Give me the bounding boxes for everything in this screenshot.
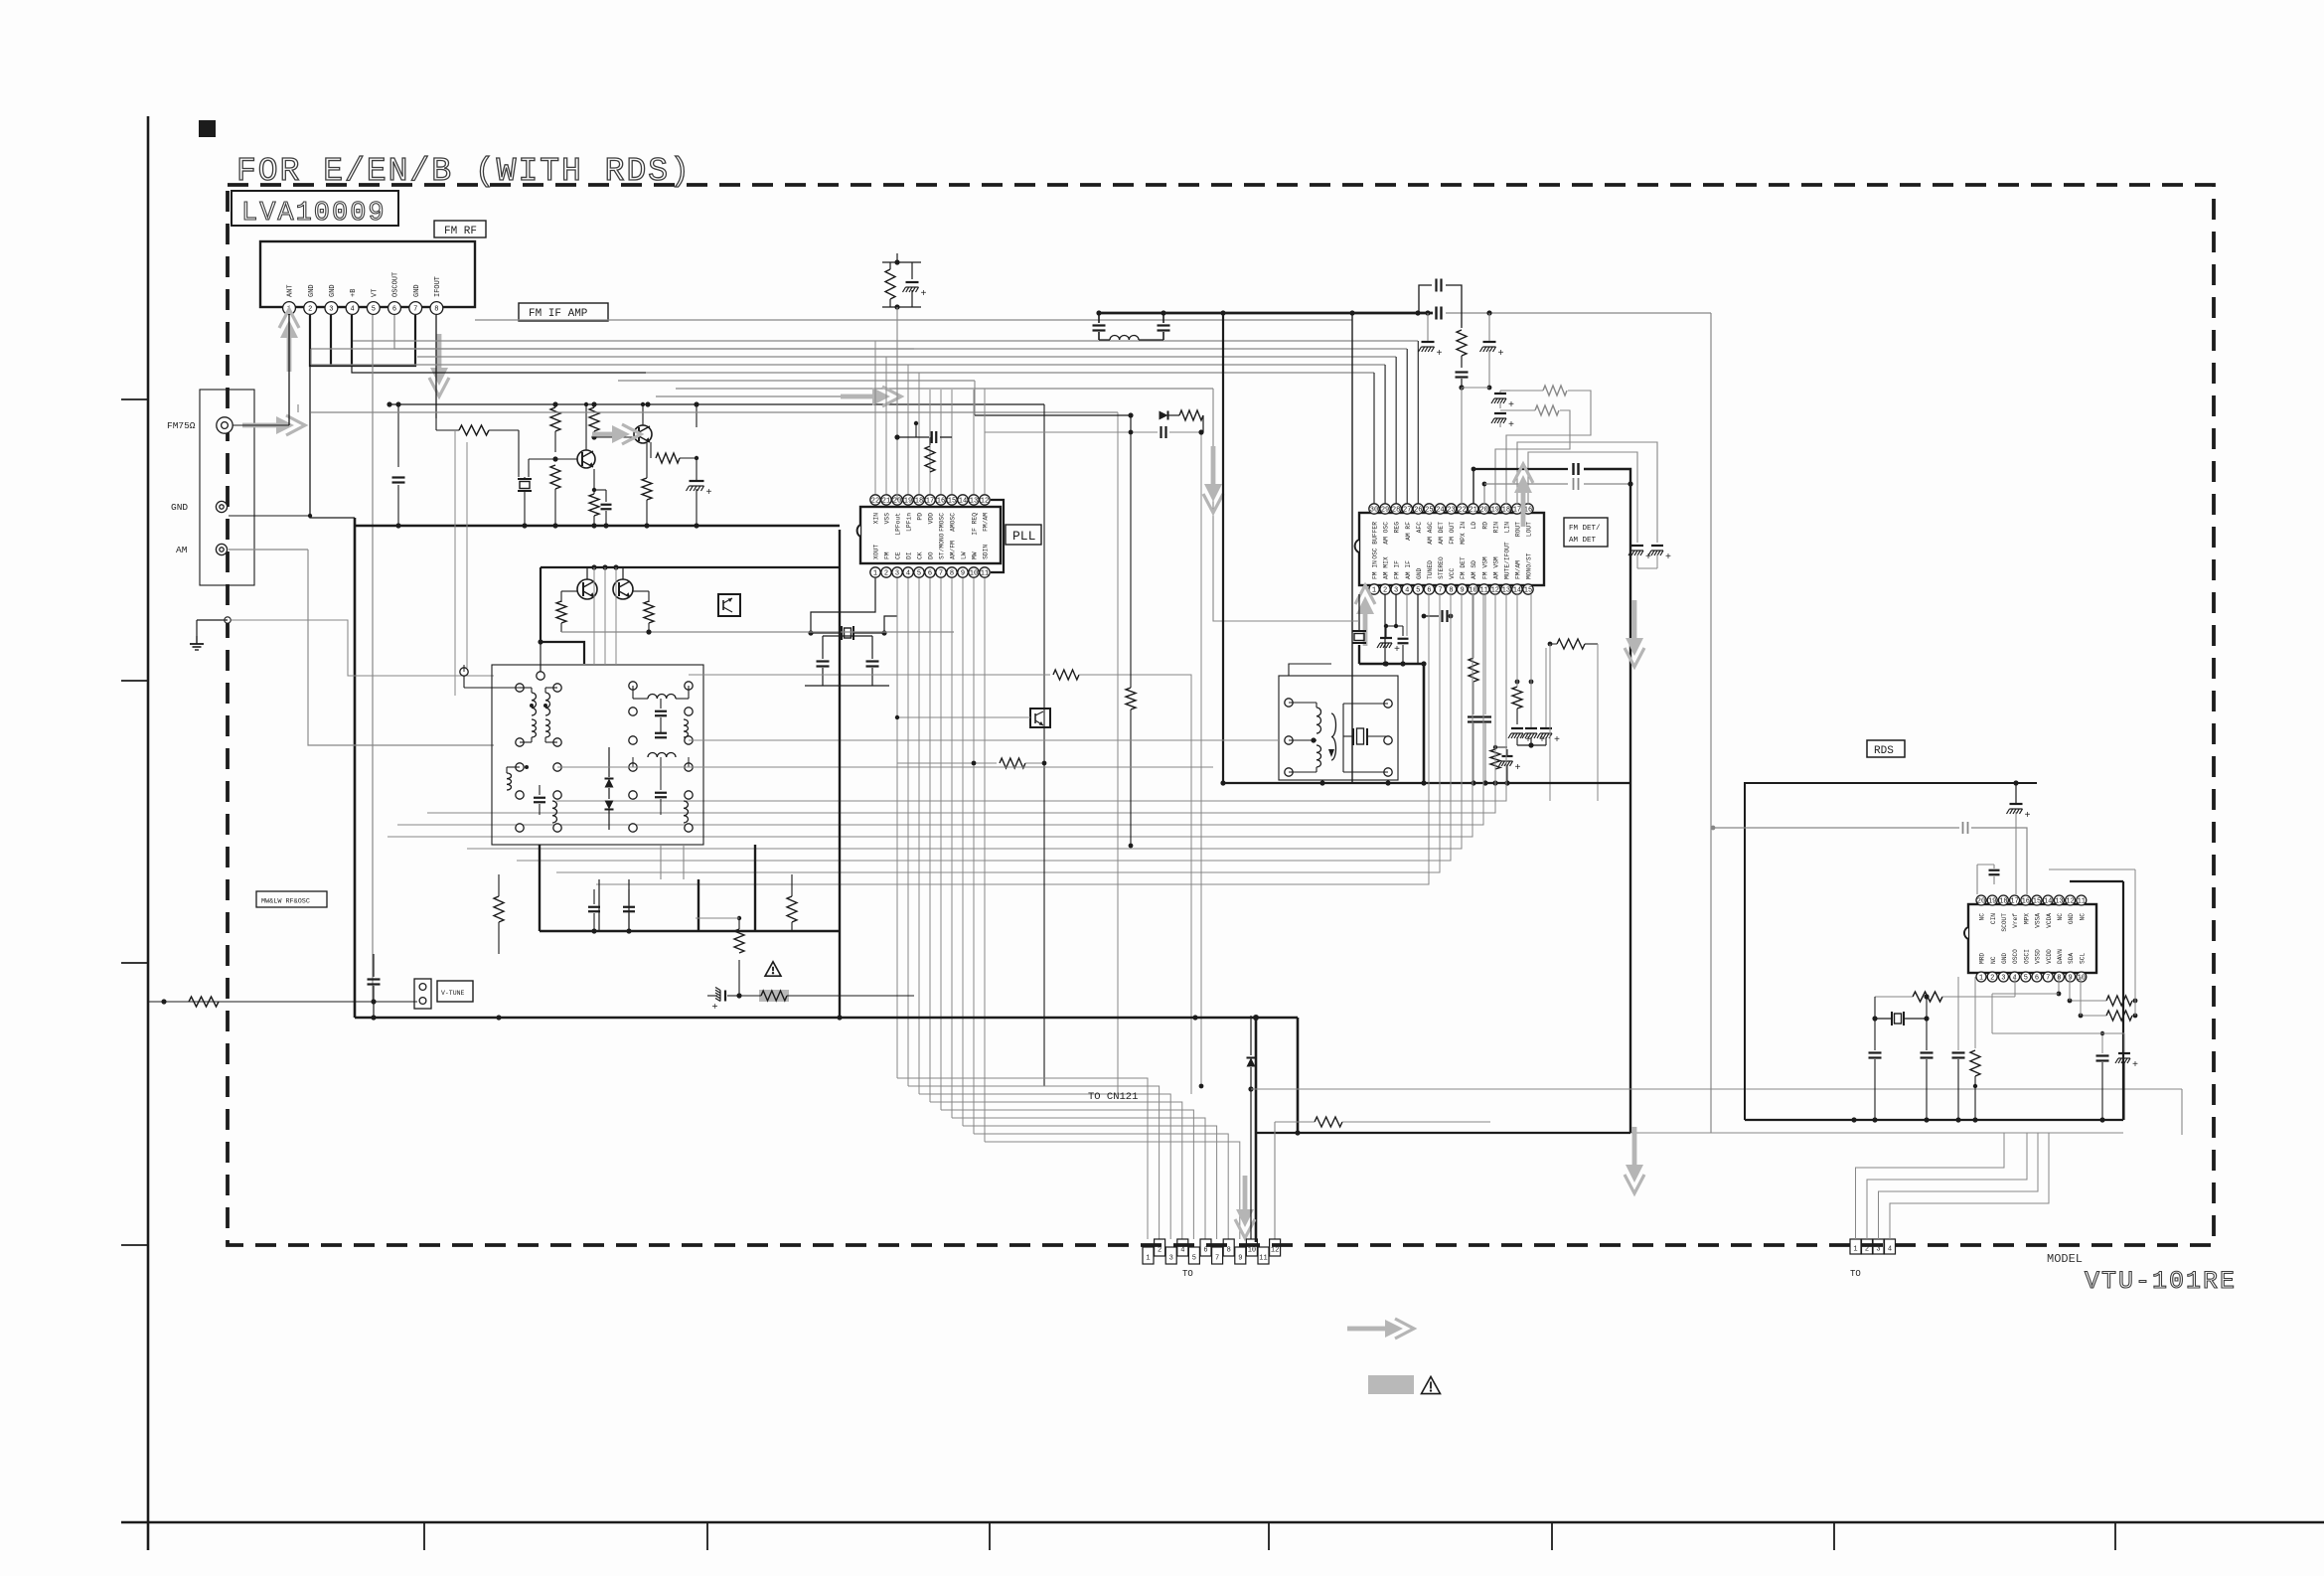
wire OSCOUT <box>394 315 914 349</box>
capacitor emitter <box>594 490 612 526</box>
crystal rds <box>1872 994 1929 1025</box>
discriminator CF <box>1343 700 1392 776</box>
wire con12 feed 3 <box>919 1094 1170 1239</box>
wire bus h351 <box>311 348 1407 350</box>
svg-text:VT: VT <box>371 289 379 297</box>
FM RF pin 6 <box>388 272 401 315</box>
DET pin 3 <box>1391 560 1401 595</box>
wire xtal <box>805 578 897 686</box>
PLL pin 15 <box>947 495 957 532</box>
RDS pin 1 <box>1976 953 1986 983</box>
wire pll-down 10 <box>984 578 986 1142</box>
label FM IF AMP <box>519 303 608 321</box>
svg-text:11: 11 <box>1259 1255 1267 1263</box>
svg-text:IF REQ: IF REQ <box>972 513 979 536</box>
svg-text:19: 19 <box>904 498 912 506</box>
svg-text:2: 2 <box>884 570 888 578</box>
capacitor elec out <box>687 404 712 526</box>
discriminator T1 <box>1285 699 1336 776</box>
wire con12 pin11 thick <box>1253 1015 1259 1242</box>
svg-text:30: 30 <box>1370 507 1378 515</box>
capacitor input <box>392 478 405 527</box>
ground bus low <box>1256 1130 1630 1135</box>
wire +B drop <box>352 366 646 373</box>
PLL pin 13 <box>969 495 979 536</box>
svg-text:AM OSC: AM OSC <box>1383 522 1390 545</box>
resistor q6 row <box>897 758 1046 768</box>
wire if-amp top rail <box>387 401 1044 406</box>
DET pin 8 <box>1446 567 1456 594</box>
wire sda scl drops <box>2070 869 2135 1016</box>
resistor bias1 <box>550 404 560 452</box>
svg-text:5: 5 <box>372 306 376 314</box>
svg-text:TO: TO <box>1182 1269 1193 1279</box>
label FM RF <box>434 221 486 237</box>
svg-text:15: 15 <box>2033 898 2041 906</box>
wire mpx right v <box>1630 313 2123 1133</box>
frame tick x996 <box>989 1522 991 1550</box>
legend signal arrow <box>1347 1319 1414 1339</box>
svg-text:+: + <box>707 1004 718 1010</box>
wire mw vert1 <box>599 879 629 931</box>
wire fmrf gnd to bus <box>310 366 355 518</box>
capacitor c-pair <box>1468 594 1491 783</box>
bus vertical left <box>354 518 357 1018</box>
svg-text:21: 21 <box>882 498 890 506</box>
svg-text:5: 5 <box>1416 587 1420 595</box>
ground bus mw <box>540 928 840 933</box>
resistor vtune gray <box>736 990 825 1002</box>
resistor if-amp in <box>436 418 519 435</box>
svg-text:ANT: ANT <box>287 284 295 297</box>
svg-text:NC: NC <box>1979 913 1986 921</box>
signal arrow IFOUT down <box>429 334 449 396</box>
svg-text:MODEL: MODEL <box>2047 1252 2083 1266</box>
legend caution <box>1368 1375 1441 1394</box>
resistor q4 <box>633 591 654 632</box>
FM RF pin 3 <box>325 284 338 314</box>
transformer T4 <box>507 763 561 832</box>
connector CN pin 4 <box>1177 1239 1188 1256</box>
wire pll-down 3 <box>907 578 909 1086</box>
wire con12 feed 6 <box>952 1118 1205 1239</box>
capacitor elec busB <box>1462 313 1504 390</box>
svg-text:FM75Ω: FM75Ω <box>167 420 196 431</box>
svg-text:9: 9 <box>1460 587 1464 595</box>
svg-text:+: + <box>1645 552 1651 563</box>
transformer T5 <box>629 753 693 833</box>
resistor low <box>1275 1117 1490 1239</box>
svg-text:CIN: CIN <box>1990 913 1997 924</box>
connector CN pin 12 <box>1270 1239 1281 1256</box>
RDS ground bus <box>1745 1117 2123 1122</box>
svg-text:25: 25 <box>1425 507 1433 515</box>
svg-text:AM: AM <box>176 545 188 555</box>
PLL pin 5 <box>914 552 924 577</box>
svg-text:7: 7 <box>2046 975 2050 983</box>
DET pin 30 <box>1369 504 1379 559</box>
resistor r-afc <box>1469 594 1478 714</box>
signal arrow into ANT pin <box>279 309 299 372</box>
bus risers <box>698 530 840 1018</box>
svg-text:21: 21 <box>1469 507 1476 515</box>
transformer block box <box>492 665 703 845</box>
PLL pin 19 <box>903 495 913 532</box>
RDS thick top <box>2070 881 2123 1120</box>
svg-text:18: 18 <box>1999 898 2007 906</box>
wire bus drop <box>1351 313 1353 783</box>
PLL pin 6 <box>925 552 935 577</box>
svg-text:26: 26 <box>1414 507 1422 515</box>
RDS pin 15 <box>2032 895 2042 928</box>
wire con4 feed 2 <box>1867 1133 2027 1239</box>
PLL pin 22 <box>870 495 880 525</box>
resistor pll top <box>885 262 895 307</box>
DET pin 21 <box>1468 504 1477 530</box>
svg-text:+: + <box>706 488 712 499</box>
svg-text:FM IF AMP: FM IF AMP <box>529 308 588 320</box>
wire rds davn <box>1992 977 2061 1006</box>
wire bus gray cont <box>1415 310 1711 315</box>
wire disc top <box>1289 664 1331 676</box>
wire det-top drop 29 <box>1384 365 1386 504</box>
svg-text:19: 19 <box>1491 507 1499 515</box>
GND jack <box>216 501 227 512</box>
AM jack <box>216 544 227 554</box>
DET pin 19 <box>1490 504 1500 534</box>
index square <box>199 120 216 137</box>
frame tick y685 <box>121 680 148 682</box>
connector CN pin 7 <box>1212 1247 1223 1264</box>
svg-text:PD: PD <box>917 513 924 521</box>
signal arrow antenna <box>242 415 305 435</box>
wire pll top drops2 <box>875 341 919 494</box>
DET pin 24 <box>1435 504 1445 545</box>
resistor center col <box>1126 432 1136 848</box>
PLL pin 14 <box>958 495 968 506</box>
capacitor mw1 <box>588 889 600 931</box>
label MODEL <box>2047 1252 2083 1266</box>
resistor bias2 <box>589 404 599 437</box>
title FOR E/EN/B (WITH RDS) <box>236 153 692 190</box>
antenna connector body <box>200 390 254 585</box>
signal arrow q2 <box>592 424 641 444</box>
svg-text:RD: RD <box>1481 522 1488 530</box>
signal arrow bus <box>841 387 901 406</box>
svg-text:ROUT: ROUT <box>1515 522 1522 537</box>
RDS pin 13 <box>2054 895 2064 920</box>
wire pll vdd drops <box>919 390 985 494</box>
power bus thick <box>1099 310 1433 315</box>
crystal pll <box>808 626 886 640</box>
svg-text:IFOUT: IFOUT <box>434 276 442 297</box>
signal arrow audio down <box>1625 600 1644 1193</box>
capacitor reg <box>1422 610 1454 622</box>
wire pll-down 8 <box>962 578 964 1126</box>
svg-text:AM DET: AM DET <box>1569 537 1597 545</box>
svg-text:MW: MW <box>972 552 979 559</box>
svg-text:DI: DI <box>906 552 913 559</box>
DET pin 25 <box>1424 504 1434 545</box>
connector RDS pin 1 <box>1850 1239 1861 1254</box>
wire bus h391 <box>676 388 1213 390</box>
wire gnd jack <box>229 514 312 518</box>
svg-text:GND: GND <box>413 284 421 297</box>
frame tick x712 <box>706 1522 708 1550</box>
svg-text:24: 24 <box>1436 507 1444 515</box>
svg-text:OSCO: OSCO <box>2012 949 2019 964</box>
svg-text:AM SD: AM SD <box>1471 560 1477 579</box>
label TO <box>1182 1269 1193 1279</box>
wire det nest 3 <box>387 594 1472 837</box>
capacitor elec trio <box>1508 594 1560 748</box>
svg-text:3: 3 <box>895 570 899 578</box>
svg-text:SDIN: SDIN <box>983 545 990 559</box>
svg-text:13: 13 <box>1502 587 1510 595</box>
DET pin 15 <box>1523 552 1533 594</box>
connector CN pin 9 <box>1235 1247 1246 1264</box>
svg-text:16: 16 <box>937 498 945 506</box>
label FM DET/AM DET <box>1564 518 1608 547</box>
svg-text:VCDA: VCDA <box>2046 913 2053 928</box>
svg-text:OSCI: OSCI <box>2023 949 2030 964</box>
capacitor trim pll <box>903 262 927 307</box>
transistor Q4 <box>613 579 633 599</box>
wire if link2 <box>689 739 1279 741</box>
wire det nest 0 <box>556 594 1506 801</box>
svg-text:2: 2 <box>1383 587 1387 595</box>
svg-text:3: 3 <box>1876 1246 1880 1254</box>
svg-text:LVA10009: LVA10009 <box>241 199 387 229</box>
svg-text:DO: DO <box>928 552 935 559</box>
border frame bottom rule <box>121 1521 2324 1524</box>
label PLL <box>1006 525 1041 545</box>
svg-text:14: 14 <box>959 498 967 506</box>
capacitor elec detR2 <box>1637 546 1671 568</box>
resistor rds scl <box>2079 1011 2138 1021</box>
signal arrow con12 <box>1235 1176 1255 1238</box>
ground bus main <box>355 1015 1298 1020</box>
svg-text:AM DET: AM DET <box>1438 522 1445 545</box>
wire audio R <box>1482 478 1633 504</box>
pi filter <box>1093 310 1170 340</box>
label TO CN121 <box>1088 1091 1138 1103</box>
wire con4 feed 1 <box>1856 1133 2005 1239</box>
wire vtune right <box>738 960 740 996</box>
DET pin 13 <box>1501 542 1511 595</box>
wire det nest 1 <box>427 594 1495 813</box>
transistor Q6 boxed <box>895 709 1050 727</box>
connector RDS pin 4 <box>1885 1239 1896 1254</box>
RDS pin 3 <box>1998 953 2008 983</box>
wire gnd drop <box>1297 1018 1300 1133</box>
RDS pin 5 <box>2021 949 2031 983</box>
RDS pin 10 <box>2077 953 2087 983</box>
wire bus h399 <box>656 395 886 397</box>
capacitor elec vtune <box>707 988 739 1010</box>
IC RDS demod body <box>1964 904 2096 973</box>
module outline dashed border <box>228 185 2214 1245</box>
svg-text:5: 5 <box>1192 1255 1196 1263</box>
capacitor pll lpf <box>894 421 952 443</box>
svg-text:7: 7 <box>413 306 417 314</box>
svg-text:GND: GND <box>308 284 316 297</box>
wire GND pins <box>310 315 415 366</box>
wire det nest 7 <box>596 594 1429 884</box>
wire center vb <box>1213 389 1359 621</box>
svg-text:+: + <box>921 289 927 300</box>
svg-text:4: 4 <box>350 306 354 314</box>
svg-text:MRD: MRD <box>1979 953 1986 964</box>
PLL pin 9 <box>958 552 968 577</box>
wire det-top drop 28 <box>1395 357 1397 504</box>
PLL pin 8 <box>947 541 957 578</box>
svg-text:+: + <box>1515 763 1521 774</box>
deemphasis loop2 <box>1491 405 1570 504</box>
wire t-left drop <box>455 430 467 696</box>
svg-text:AMOSC: AMOSC <box>950 513 957 532</box>
FM RF pin 2 <box>304 284 317 314</box>
svg-text:2: 2 <box>1990 975 1994 983</box>
svg-text:+B: +B <box>350 289 358 297</box>
svg-text:4: 4 <box>1405 587 1409 595</box>
svg-text:REG: REG <box>1394 522 1401 534</box>
svg-text:5: 5 <box>2024 975 2028 983</box>
RDS block frame <box>1745 780 2037 1120</box>
wire bus h375 <box>646 372 1374 374</box>
transistor Q5 boxed <box>718 594 740 616</box>
signal arrow if down <box>1203 446 1223 513</box>
transistor Q2 fm if <box>591 425 652 443</box>
PLL pin 18 <box>914 495 924 521</box>
svg-text:5: 5 <box>917 570 921 578</box>
capacitor bus main <box>1437 307 1442 320</box>
svg-text:SCL: SCL <box>2079 953 2086 964</box>
svg-text:2: 2 <box>1158 1247 1162 1255</box>
DET pin 11 <box>1479 556 1489 594</box>
svg-text:LPFin: LPFin <box>906 513 913 532</box>
DET pin 9 <box>1457 556 1467 594</box>
capacitor mw2 <box>623 889 635 931</box>
wire IFOUT <box>435 315 437 418</box>
svg-text:13: 13 <box>970 498 978 506</box>
wire mrd line <box>1251 1089 2182 1135</box>
wire lout line <box>1528 452 1637 543</box>
svg-text:28: 28 <box>1392 507 1400 515</box>
frame tick y1253 <box>121 1244 148 1246</box>
DET pin 2 <box>1380 556 1390 594</box>
wire det nest 2 <box>397 594 1483 825</box>
resistor rds mrd <box>1970 977 1980 1120</box>
DET pin 1 <box>1369 560 1379 595</box>
wire bus h367 <box>311 364 1385 366</box>
svg-text:FM IN: FM IN <box>1372 560 1379 579</box>
crystal det <box>1352 594 1366 664</box>
wire vtune row <box>148 997 417 1007</box>
ceramic filter <box>518 430 532 526</box>
wire if link1 <box>689 670 1191 1094</box>
svg-text:8: 8 <box>950 570 954 578</box>
svg-text:29: 29 <box>1381 507 1389 515</box>
wire q3q4 thick left <box>537 567 584 680</box>
svg-text:ST/MONO: ST/MONO <box>939 533 946 559</box>
connector RDS pin 3 <box>1873 1239 1884 1254</box>
PLL pin 10 <box>969 552 979 577</box>
svg-text:FM RF: FM RF <box>444 226 477 237</box>
resistor out <box>651 442 698 463</box>
wire rds vdd row <box>1992 1006 2124 1033</box>
svg-text:FM OUT: FM OUT <box>1449 522 1456 545</box>
svg-text:CK: CK <box>917 552 924 559</box>
svg-text:AM MIX: AM MIX <box>1383 556 1390 579</box>
signal arrow lout up <box>1513 464 1533 527</box>
svg-text:8: 8 <box>1449 587 1453 595</box>
wire pll-down 5 <box>929 578 931 1102</box>
DET pin 26 <box>1413 504 1423 534</box>
svg-text:+: + <box>1394 645 1400 656</box>
svg-text:AFC: AFC <box>1416 522 1423 534</box>
FM RF pin 5 <box>367 289 380 315</box>
svg-text:15: 15 <box>948 498 956 506</box>
svg-text:LOUT: LOUT <box>1526 522 1533 537</box>
RDS pin 12 <box>2066 895 2076 924</box>
svg-text:LW: LW <box>961 552 968 559</box>
PLL pin 1 <box>870 545 880 578</box>
connector CN pin 5 <box>1188 1247 1199 1264</box>
resistor emitter2 <box>589 469 599 526</box>
deemphasis loop1 <box>1491 386 1591 504</box>
svg-text:+: + <box>1508 420 1514 431</box>
wire det pins down <box>1385 594 1418 664</box>
PLL pin 16 <box>936 495 946 532</box>
svg-text:+: + <box>1498 349 1504 360</box>
PLL pin 7 <box>936 533 946 577</box>
DET pin 29 <box>1380 504 1390 545</box>
capacitor loop top <box>1419 279 1462 329</box>
RDS pin 4 <box>2010 949 2020 983</box>
svg-text:RIN: RIN <box>1492 522 1499 534</box>
resistor mw-l <box>494 874 504 954</box>
diode varactor pair <box>605 747 614 830</box>
wire disc drops <box>1322 780 1388 783</box>
connector CN pin 3 <box>1165 1247 1176 1264</box>
capacitor elec busA <box>1419 313 1443 360</box>
wire pll12 loop <box>991 500 1004 572</box>
svg-text:AM/FM: AM/FM <box>950 541 957 559</box>
svg-text:12: 12 <box>1271 1247 1279 1255</box>
FM75 ohm jack <box>217 417 232 433</box>
wire con12 feed 1 <box>897 1078 1148 1239</box>
svg-text:GND: GND <box>329 284 337 297</box>
discriminator block box <box>1279 676 1398 780</box>
svg-text:GND: GND <box>2001 953 2008 964</box>
DET pin 4 <box>1402 560 1412 595</box>
svg-text:FMOSC: FMOSC <box>939 513 946 532</box>
svg-text:LPFout: LPFout <box>895 513 902 536</box>
ground bus fm-if <box>355 523 840 528</box>
svg-text:Vref: Vref <box>2012 913 2019 928</box>
wire pll-down 7 <box>951 578 953 1118</box>
svg-text:11: 11 <box>981 570 989 578</box>
frame tick x2129 <box>2114 1522 2116 1550</box>
connector V-TUNE <box>414 979 473 1009</box>
diode feed row <box>975 381 1203 432</box>
RDS pin 8 <box>2054 949 2064 983</box>
capacitor rds4 <box>2096 1031 2109 1120</box>
svg-text:12: 12 <box>2066 898 2074 906</box>
svg-text:FM DET/: FM DET/ <box>1569 525 1601 533</box>
wire mpx to rds <box>1711 822 2027 894</box>
